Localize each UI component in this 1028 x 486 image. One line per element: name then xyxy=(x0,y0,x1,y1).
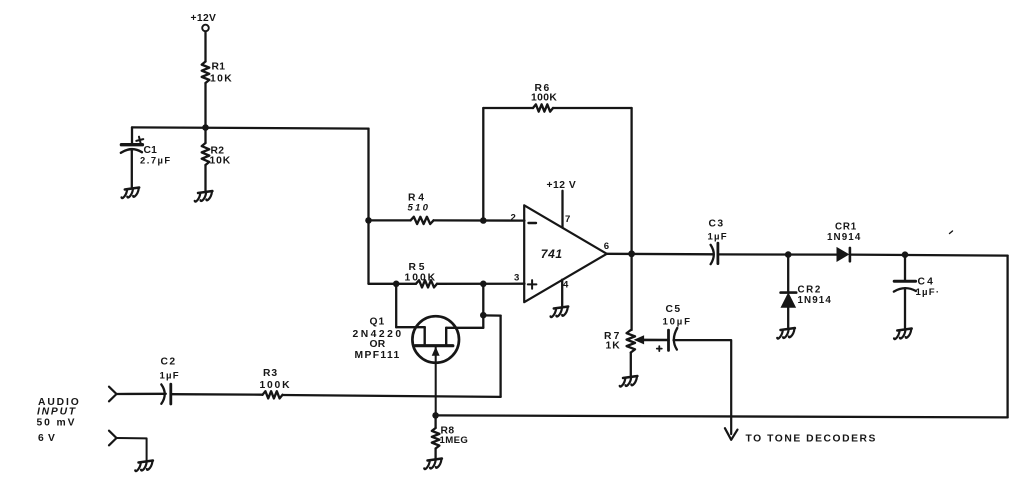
wire R8 to ground xyxy=(434,449,436,459)
svg-text:MPF111: MPF111 xyxy=(355,350,401,361)
wire CR1 to C4 and right corner xyxy=(850,255,1008,256)
ground below 6V connector xyxy=(135,461,153,472)
node output / R6 / R7 junction xyxy=(628,250,635,257)
svg-text:INPUT: INPUT xyxy=(37,407,77,418)
resistor R3 100K xyxy=(260,368,292,398)
svg-text:1K: 1K xyxy=(606,341,621,352)
ground below CR2 xyxy=(777,328,795,339)
svg-text:1N914: 1N914 xyxy=(798,295,832,306)
wire right feedback riser xyxy=(1006,256,1008,418)
wire R5 line left segment xyxy=(369,283,417,285)
svg-text:CR1: CR1 xyxy=(835,222,857,233)
wire junction to audio line xyxy=(483,314,500,317)
resistor R4 510 xyxy=(408,192,434,224)
svg-text:10µF: 10µF xyxy=(663,317,692,328)
wire Q1 left lead (to R5 line) xyxy=(395,284,397,327)
diode CR2 1N914 (shunt) xyxy=(781,255,832,328)
svg-text:741: 741 xyxy=(541,247,563,261)
arrow to tone decoders xyxy=(725,428,738,440)
ground below pin 4 xyxy=(551,307,569,318)
wire R6 right leg to output node xyxy=(553,107,632,109)
wire R5 node down to Q1 junction xyxy=(482,284,484,315)
node rail/R4 line junction xyxy=(365,217,372,224)
pin 7 V+ lead with +12V label xyxy=(547,180,577,228)
svg-text:Q1: Q1 xyxy=(370,316,386,327)
wire R4 to op-amp pin 2 xyxy=(434,219,525,222)
svg-text:6: 6 xyxy=(604,241,610,252)
wire R6 left leg xyxy=(482,108,484,221)
resistor R7 1K (pot) xyxy=(604,254,635,376)
wire C3 to CR1 xyxy=(718,253,837,256)
ground below R2 xyxy=(195,191,213,202)
ground below C4 xyxy=(894,329,912,340)
wire AGC feedback bottom line xyxy=(436,415,1008,417)
svg-text:4: 4 xyxy=(563,280,569,291)
svg-text:C3: C3 xyxy=(709,219,725,230)
resistor R8 1MEG xyxy=(432,415,468,448)
svg-text:50 mV: 50 mV xyxy=(37,418,77,429)
wire C2 to R3 xyxy=(171,393,263,396)
node R5 line / Q1 right lead junction xyxy=(480,281,487,288)
wire op-amp output to C3 xyxy=(607,253,714,256)
op-amp U1 741 xyxy=(524,205,607,302)
svg-text:6 V: 6 V xyxy=(38,433,56,444)
audio input connector xyxy=(109,387,117,402)
svg-text:1µF·: 1µF· xyxy=(916,287,941,298)
wire audio input to C2 xyxy=(117,393,166,396)
wire R4 line left segment xyxy=(369,219,411,221)
svg-text:100K: 100K xyxy=(531,92,557,103)
svg-text:100K: 100K xyxy=(260,380,292,391)
svg-text:C4: C4 xyxy=(918,276,936,287)
svg-text:10K: 10K xyxy=(210,74,233,85)
node C3/CR2/CR1 junction xyxy=(785,251,792,258)
wire +12V terminal to R1 xyxy=(204,31,206,61)
svg-text:TO TONE DECODERS: TO TONE DECODERS xyxy=(746,433,877,444)
wire R1 to node A xyxy=(204,83,206,128)
ground below R7 xyxy=(620,376,638,387)
resistor R6 100K xyxy=(531,83,557,112)
wire bias rail (C1 to rail bend) xyxy=(132,127,369,128)
svg-text:1N914: 1N914 xyxy=(827,232,861,243)
wire R5 to op-amp pin 3 xyxy=(437,283,525,285)
capacitor C4 1uF xyxy=(894,255,940,328)
node R5 line / Q1 left lead junction xyxy=(393,281,400,288)
wire 6V connector to ground xyxy=(117,438,147,461)
transistor Q1 2N4220 JFET xyxy=(353,316,460,415)
svg-text:C5: C5 xyxy=(666,304,682,315)
diode CR1 1N914 (series) xyxy=(827,222,861,262)
resistor R2 xyxy=(202,128,231,167)
6V return connector xyxy=(109,431,117,446)
svg-text:R1: R1 xyxy=(212,62,226,73)
node Q1 drain / audio feed junction xyxy=(480,312,487,319)
wire R3 to Q1 source riser (crosses gate lead) xyxy=(283,395,501,397)
capacitor C2 1uF xyxy=(160,357,180,405)
input labels AUDIO INPUT 50mV 6V xyxy=(37,397,81,444)
svg-text:7: 7 xyxy=(565,214,571,225)
svg-text:1MEG: 1MEG xyxy=(440,435,469,446)
svg-text:510: 510 xyxy=(408,203,431,214)
svg-text:R3: R3 xyxy=(263,368,278,379)
node A: R1/R2/C1 rail junction xyxy=(202,124,209,131)
svg-text:2: 2 xyxy=(511,212,517,223)
scan speck top right xyxy=(950,231,953,234)
svg-text:10K: 10K xyxy=(210,155,232,166)
ground below C1 xyxy=(122,188,140,199)
svg-text:2.7µF: 2.7µF xyxy=(140,155,172,166)
resistor R5 100K xyxy=(405,262,438,288)
node R4 line / R6 left leg junction xyxy=(480,217,487,224)
node CR1/C4 junction xyxy=(902,251,909,258)
svg-text:1µF: 1µF xyxy=(708,232,728,243)
wire Q1 right lead to junction xyxy=(446,327,483,329)
+12V supply terminal xyxy=(191,13,217,31)
capacitor C3 1uF xyxy=(708,219,728,265)
wire rail bend down to R4/R5 lines xyxy=(367,129,369,284)
svg-text:C2: C2 xyxy=(161,357,177,368)
capacitor C1 2.7uF xyxy=(121,127,172,187)
node Q1 gate / R8 / AGC line junction xyxy=(432,412,439,419)
pin 4 V- lead xyxy=(562,280,569,306)
wire C5 to tone decoder drop xyxy=(674,340,732,434)
svg-text:100K: 100K xyxy=(405,272,438,283)
capacitor C5 10uF xyxy=(657,304,692,351)
svg-text:R5: R5 xyxy=(409,262,428,273)
wire R2 to ground xyxy=(204,165,206,191)
svg-text:1µF: 1µF xyxy=(160,371,180,382)
resistor R1 xyxy=(202,62,233,85)
ground below R8 xyxy=(424,459,442,470)
svg-text:3: 3 xyxy=(514,272,520,283)
svg-text:CR2: CR2 xyxy=(798,284,822,295)
R7 wiper arrow xyxy=(635,336,644,344)
svg-text:+12V: +12V xyxy=(191,13,217,24)
svg-text:OR: OR xyxy=(370,339,386,350)
svg-text:+12 V: +12 V xyxy=(547,180,577,191)
